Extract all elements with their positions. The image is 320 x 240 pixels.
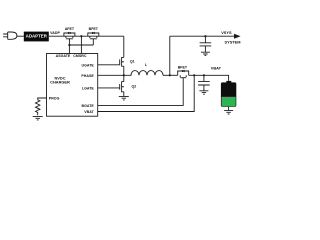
ground PROG (33, 116, 43, 120)
wire VSYS rail (170, 35, 235, 37)
wire VBAT rail (189, 75, 229, 81)
ground Q2 (119, 96, 129, 100)
svg-text:SYSTEM: SYSTEM (225, 40, 241, 45)
svg-text:AFET: AFET (65, 27, 75, 31)
ground C2 (199, 91, 208, 94)
battery BT1 (221, 81, 236, 107)
ground C1 (201, 52, 210, 55)
node VSYS branch dot (169, 74, 171, 76)
adapter block (24, 32, 49, 42)
capacitor C1 VSYS (200, 36, 212, 52)
wire gate tie (69, 39, 93, 45)
wire inductor to BFET (163, 74, 178, 76)
pin wire UGATE (98, 64, 120, 66)
AC plug P1 (3, 32, 17, 39)
svg-text:UGATE: UGATE (81, 63, 94, 67)
wire plug to adapter (17, 35, 24, 37)
wire battery to ground (228, 107, 230, 110)
wire VADP rail (49, 35, 124, 37)
resistor R1 PROG (36, 100, 40, 115)
svg-text:LGATE: LGATE (82, 86, 95, 90)
svg-text:PROG: PROG (49, 97, 60, 101)
svg-text:BFET: BFET (89, 27, 99, 31)
transistor AFET (64, 32, 75, 39)
svg-text:L: L (145, 63, 148, 67)
wire Q1 source to phase (123, 66, 125, 75)
wire ASGATE gate line (68, 39, 70, 54)
svg-text:ASGATE: ASGATE (56, 54, 71, 58)
svg-text:Q2: Q2 (132, 85, 137, 89)
node phase dot (123, 74, 125, 76)
svg-text:CHARGER: CHARGER (50, 80, 70, 85)
capacitor C2 VBAT (198, 75, 210, 90)
svg-text:CMSRC: CMSRC (73, 54, 87, 58)
pin wire LGATE (98, 87, 120, 89)
transistor BFET battery (178, 70, 189, 78)
node VSYS cap dot (204, 35, 206, 37)
svg-text:Q1: Q1 (130, 60, 135, 64)
transistor Q1 (120, 57, 124, 67)
inductor L1 (124, 71, 163, 76)
transistor BFET input (88, 32, 99, 39)
svg-text:VBAT: VBAT (84, 110, 94, 114)
node VBAT pin dot (193, 74, 195, 76)
pin wire BGATE (98, 78, 184, 106)
svg-text:BFET: BFET (178, 66, 188, 70)
svg-text:ADAPTER: ADAPTER (26, 34, 48, 39)
svg-text:VSYS: VSYS (221, 30, 232, 35)
node VBAT cap dot (203, 74, 205, 76)
wire CMSRC line (80, 36, 82, 53)
node gate tie dot (68, 44, 70, 46)
pin wire VBAT (98, 75, 195, 111)
svg-text:VADP: VADP (50, 31, 60, 35)
node common-source dot (80, 35, 82, 37)
svg-text:PHASE: PHASE (81, 74, 94, 78)
arrowhead VSYS (234, 34, 241, 39)
wire VSYS riser (169, 36, 171, 75)
wire Q1 drain drop (123, 36, 125, 57)
wire Q2 drain (123, 75, 125, 81)
transistor Q2 (120, 81, 124, 92)
IC U1 NVDC charger box (47, 54, 98, 117)
wire Q2 source to ground (123, 92, 125, 96)
pin wire PHASE (98, 74, 124, 76)
svg-text:VBAT: VBAT (211, 65, 222, 70)
svg-text:BGATE: BGATE (81, 104, 94, 108)
pin wire PROG (38, 98, 47, 100)
ground battery (224, 110, 233, 114)
